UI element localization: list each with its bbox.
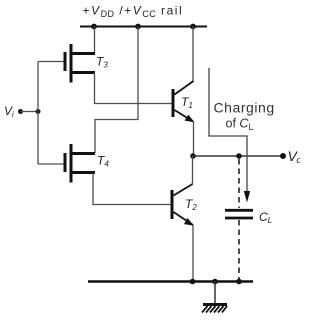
node CL bottom junction [236, 279, 242, 285]
label Charging of CL [214, 100, 275, 133]
wire T2 collector to output node [192, 156, 194, 185]
wire T1 collector to rail [192, 27, 194, 82]
wire T1 emitter to output node [193, 121, 195, 156]
wire VDD rail [80, 26, 207, 28]
wire output to Vo [193, 155, 283, 157]
node ground junction [212, 279, 218, 285]
node rail-T1 junction [190, 24, 196, 30]
transistor T4 (MOSFET) [38, 144, 95, 183]
node Vi junction [36, 109, 41, 114]
net label +VDD/+VCC rail [83, 4, 184, 20]
node CL branch junction [236, 153, 242, 159]
svg-text:Charging: Charging [214, 100, 275, 116]
wire charging bracket [209, 68, 247, 192]
node rail-T4 junction [135, 24, 141, 30]
wire ground rail [88, 280, 253, 282]
transistor T2 (NPN) [171, 184, 194, 226]
node Vi terminal [18, 109, 23, 114]
capacitor CL [225, 210, 253, 218]
node output junction [190, 153, 196, 159]
node T2 emitter junction [190, 279, 196, 285]
transistor T1 (NPN) [172, 81, 195, 122]
wire T2 emitter to ground rail [192, 225, 194, 282]
wire Vi to gates [37, 62, 39, 165]
wire Vi input [21, 111, 39, 113]
wire dashed CL bottom [238, 220, 240, 281]
svg-text:+VDD /+VCC rail: +VDD /+VCC rail [83, 4, 184, 20]
ground [202, 282, 227, 313]
arrow charging direction [244, 191, 250, 203]
node rail-T3 junction [91, 24, 97, 30]
transistor T3 (MOSFET) [38, 44, 95, 83]
node Vo terminal [280, 153, 286, 159]
wire T4 source to T2 base [93, 173, 171, 205]
wire rail to T4 drain [95, 27, 138, 154]
wire T3 source to T1 base [95, 73, 173, 104]
wire dashed CL top [238, 159, 240, 208]
wire rail to T3 drain [94, 27, 96, 55]
